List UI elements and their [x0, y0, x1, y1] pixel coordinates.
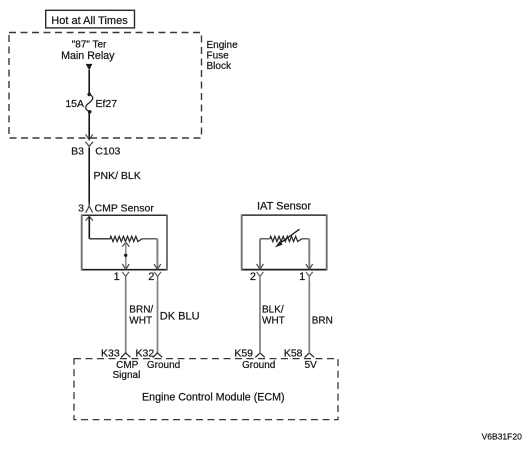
pin 2 female connector [154, 272, 161, 282]
wire BLK/WHT [259, 281, 261, 353]
connector pin 3 female symbol [86, 202, 93, 213]
svg-text:WHT: WHT [129, 315, 152, 326]
relay output solid triangle [86, 64, 93, 71]
ECM pin function label CMP Signal [113, 360, 141, 381]
svg-text:IAT Sensor: IAT Sensor [257, 201, 311, 213]
wire color label BRN/WHT [129, 304, 153, 326]
svg-text:K59: K59 [234, 347, 253, 359]
arrow up at CMP pin 3 entry [86, 216, 93, 220]
svg-text:3: 3 [78, 202, 84, 214]
IAT pin 2 female connector [257, 272, 264, 282]
svg-text:1: 1 [299, 271, 305, 283]
svg-text:Engine Control Module (ECM): Engine Control Module (ECM) [142, 392, 285, 404]
CMP sensor box [81, 215, 168, 271]
svg-text:BRN: BRN [312, 315, 333, 326]
svg-text:BRN/: BRN/ [129, 304, 153, 315]
junction dot on wiper wire [124, 254, 127, 257]
svg-text:2: 2 [148, 271, 154, 283]
CMP sensor resistor zigzag [110, 236, 142, 241]
svg-text:WHT: WHT [262, 315, 285, 326]
arrow down at CMP pin 2 [154, 264, 161, 269]
IAT sensor box [241, 215, 327, 271]
svg-text:Signal: Signal [113, 370, 141, 381]
terminal bump K58 [305, 353, 314, 358]
svg-text:Hot at All Times: Hot at All Times [51, 15, 128, 27]
svg-text:CMP: CMP [116, 360, 139, 371]
wire from relay to fuse [88, 70, 90, 94]
svg-text:BLK/: BLK/ [262, 304, 284, 315]
svg-text:1: 1 [114, 271, 120, 283]
svg-text:5V: 5V [305, 360, 318, 371]
wire from fuse to C103 [88, 112, 90, 140]
wire BRN/WHT [125, 281, 127, 353]
terminal bump K33 [121, 353, 130, 358]
svg-text:2: 2 [250, 271, 256, 283]
IAT left leg wire [260, 238, 270, 240]
wiper arrow pointing up at resistor [122, 242, 129, 247]
connector C103 female symbol [85, 142, 93, 149]
IAT thermistor zigzag [270, 236, 302, 241]
arrow down at CMP pin 1 [122, 264, 129, 269]
svg-text:PNK/ BLK: PNK/ BLK [94, 170, 141, 182]
arrow down at IAT pin 2 [257, 264, 264, 269]
terminal bump K59 [255, 353, 264, 358]
svg-text:DK BLU: DK BLU [160, 311, 200, 323]
wire resistor to right leg [142, 238, 157, 240]
terminal bump K32 [153, 353, 162, 358]
label box "Hot at All Times" [46, 10, 135, 28]
svg-text:B3: B3 [71, 145, 84, 157]
relay "87" terminal label [61, 40, 115, 62]
svg-text:K58: K58 [284, 347, 303, 359]
ECM dashed box [74, 359, 338, 420]
svg-text:V6B31F20: V6B31F20 [482, 431, 522, 441]
svg-text:Ground: Ground [147, 360, 180, 371]
svg-text:Ef27: Ef27 [96, 98, 118, 110]
IAT pin 1 female connector [306, 272, 313, 282]
svg-text:K33: K33 [101, 347, 120, 359]
wiper wire down [125, 243, 127, 269]
label Engine Fuse Block [207, 40, 239, 72]
svg-text:K32: K32 [136, 347, 155, 359]
wire DK BLU [157, 281, 159, 353]
svg-text:C103: C103 [95, 145, 120, 157]
wire inside CMP from pin3 down [88, 217, 90, 239]
svg-text:15A: 15A [65, 98, 84, 110]
svg-text:CMP Sensor: CMP Sensor [95, 202, 155, 214]
wire color label BLK/WHT [262, 304, 285, 326]
wire to resistor [89, 238, 110, 240]
engine fuse block dashed box [9, 33, 202, 139]
IAT thermistor diagonal arrow [275, 229, 300, 247]
fuse Ef27 15A [65, 93, 117, 114]
svg-text:Ground: Ground [242, 360, 275, 371]
wire BRN [308, 281, 310, 353]
pin 1 female connector [122, 272, 129, 282]
svg-text:Engine: Engine [207, 40, 239, 51]
IAT right leg wire [302, 238, 310, 240]
svg-text:Block: Block [207, 61, 232, 72]
wire PNK/BLK [88, 148, 90, 205]
svg-text:Main Relay: Main Relay [61, 50, 115, 62]
arrow down at IAT pin 1 [306, 264, 313, 269]
arrow into C103 [86, 134, 93, 140]
